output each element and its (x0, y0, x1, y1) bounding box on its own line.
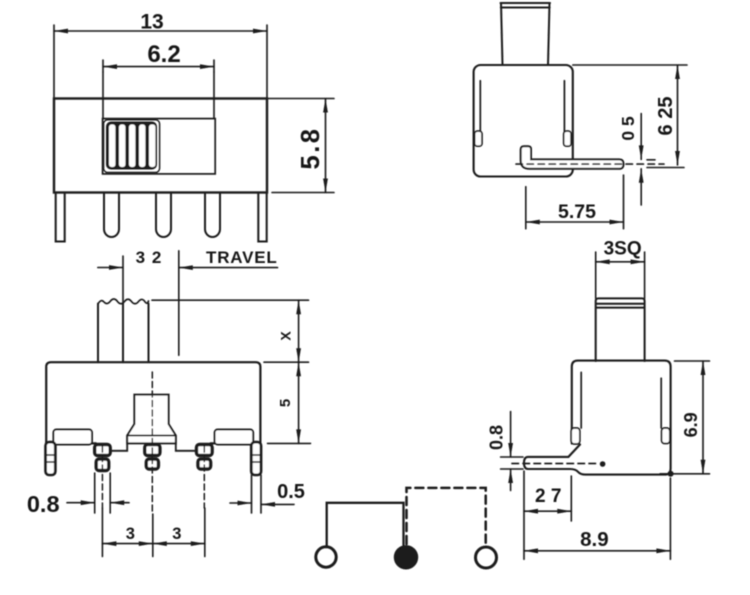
svg-text:0.8: 0.8 (487, 425, 507, 450)
svg-text:2: 2 (152, 248, 161, 267)
svg-text:0 5: 0 5 (618, 116, 638, 141)
svg-text:3: 3 (172, 525, 181, 543)
svg-text:5.75: 5.75 (558, 201, 596, 223)
svg-text:5: 5 (277, 399, 294, 407)
svg-text:3: 3 (126, 525, 135, 543)
svg-text:TRAVEL: TRAVEL (206, 248, 278, 267)
svg-text:2 7: 2 7 (535, 486, 561, 507)
svg-text:0.8: 0.8 (27, 491, 60, 517)
svg-text:X: X (278, 331, 294, 341)
svg-text:3SQ: 3SQ (604, 239, 642, 260)
svg-text:13: 13 (140, 11, 163, 34)
svg-text:3: 3 (136, 248, 145, 267)
svg-text:0.5: 0.5 (277, 481, 305, 503)
svg-text:8.9: 8.9 (580, 528, 609, 551)
svg-text:5.8: 5.8 (297, 127, 325, 170)
svg-text:6 25: 6 25 (655, 97, 677, 136)
svg-text:6.9: 6.9 (681, 412, 701, 437)
svg-text:6.2: 6.2 (147, 41, 180, 68)
